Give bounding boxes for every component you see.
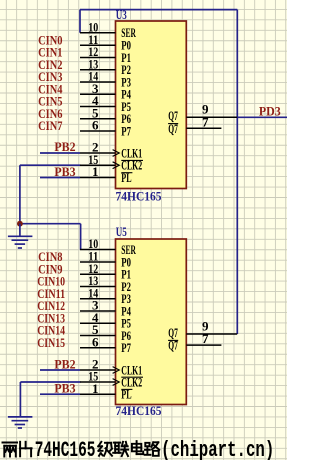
svg-text:P7: P7 [121, 340, 131, 355]
pin 7 (Q7 inverted) of U3 [168, 114, 221, 136]
wire PB2 stub U3 [40, 152, 80, 154]
pin 3 (P4) of U5 [80, 298, 131, 319]
pin 4 (P5) of U5 [80, 310, 131, 331]
caption text block [3, 438, 275, 460]
svg-text:Q7: Q7 [168, 121, 178, 136]
wire PD3 output from U3.Q7 [237, 116, 287, 118]
designator U5 [116, 224, 127, 239]
net label CIN7 [38, 118, 63, 133]
pin 11 (P0) of U5 [80, 249, 131, 270]
net label CIN5 [38, 94, 63, 109]
svg-text:74HC165: 74HC165 [35, 438, 96, 460]
net label PD3 [259, 103, 281, 118]
wire PB3 stub U3 [40, 177, 80, 179]
caption hanzi 片 [20, 442, 32, 457]
pin 9 (Q7) of U3 [168, 102, 237, 124]
pin 2 (CLK1) of U3 [80, 140, 142, 161]
caption hanzi 路 [145, 442, 160, 456]
pin 12 (P1) of U5 [80, 261, 131, 282]
wire U3.CLK2 to ground net [20, 165, 81, 224]
pin 3 (P4) of U3 [80, 81, 131, 102]
net label CIN0 [38, 32, 62, 47]
wire PB2 stub U5 [40, 369, 80, 371]
net label PB2 (U5) [54, 356, 75, 371]
wire U5.CLK2 to ground [20, 382, 80, 417]
svg-text:74HC165: 74HC165 [116, 189, 162, 204]
net label CIN14 [37, 323, 65, 338]
net label CIN11 [37, 286, 65, 301]
net label CIN15 [37, 335, 65, 350]
caption hanzi 联 [113, 442, 128, 456]
caption hanzi 电 [132, 441, 143, 454]
caption hanzi 两 [3, 443, 18, 457]
svg-text:PB2: PB2 [54, 139, 75, 154]
pin 5 (P6) of U3 [80, 105, 131, 126]
svg-text:1: 1 [92, 164, 99, 179]
value label 74HC165 of U3 [116, 189, 162, 204]
pin 10 (SER) of U5 [80, 236, 136, 257]
svg-text:PL: PL [121, 170, 131, 185]
IC U5 74HC165 [116, 239, 187, 405]
pin 15 (CLK2) of U5 [80, 369, 143, 390]
wire drop to U3 SER pin [79, 10, 81, 33]
net label CIN9 [38, 261, 63, 276]
ground symbol upper [8, 224, 33, 248]
pin 7 (Q7 inverted) of U5 [168, 331, 221, 353]
wire vertical cascade right side [236, 10, 238, 334]
pin 5 (P6) of U5 [80, 322, 131, 343]
svg-text:U5: U5 [116, 224, 127, 239]
svg-text:PB2: PB2 [54, 356, 75, 371]
net label CIN12 [37, 298, 65, 313]
net label PB3 (U3) [54, 164, 76, 179]
designator U3 [116, 7, 127, 22]
net label CIN6 [38, 106, 63, 121]
svg-text:(chipart.cn): (chipart.cn) [161, 438, 274, 460]
pin 2 (CLK1) of U5 [80, 357, 142, 378]
net label PB3 (U5) [54, 381, 76, 396]
net label CIN10 [37, 274, 65, 289]
svg-text:PB3: PB3 [54, 164, 76, 179]
net label PB2 (U3) [54, 139, 75, 154]
svg-text:1: 1 [92, 381, 99, 396]
net label CIN2 [38, 57, 62, 72]
pin 13 (P2) of U5 [80, 273, 131, 294]
svg-text:CIN7: CIN7 [38, 118, 63, 133]
IC U3 74HC165 [116, 21, 187, 189]
net label CIN4 [38, 81, 63, 96]
svg-text:P7: P7 [121, 123, 131, 138]
svg-text:Q7: Q7 [168, 338, 178, 353]
pin 12 (P1) of U3 [80, 44, 131, 65]
pin 4 (P5) of U3 [80, 93, 131, 114]
wire ground net horizontal to U5.SER [20, 224, 81, 250]
svg-text:CIN15: CIN15 [37, 335, 65, 350]
pin 15 (CLK2) of U3 [80, 152, 143, 173]
svg-text:6: 6 [92, 334, 99, 349]
pin 14 (P3) of U3 [80, 69, 131, 90]
wire cascade U5.Q7 to U3.SER (top run) [80, 9, 237, 11]
svg-text:6: 6 [92, 118, 99, 133]
svg-text:PD3: PD3 [259, 103, 281, 118]
pin 6 (P7) of U3 [80, 118, 131, 139]
svg-text:7: 7 [202, 114, 209, 129]
net label CIN8 [38, 249, 63, 264]
net label CIN13 [37, 310, 65, 325]
svg-text:7: 7 [202, 331, 209, 346]
svg-text:PL: PL [121, 387, 131, 402]
pin 14 (P3) of U5 [80, 285, 131, 306]
svg-text:U3: U3 [116, 7, 127, 22]
pin 1 (PL) of U3 [80, 164, 132, 185]
ground symbol lower [8, 417, 33, 428]
pin 11 (P0) of U3 [80, 32, 131, 53]
pin 13 (P2) of U3 [80, 56, 131, 77]
junction dot [17, 221, 23, 227]
net label CIN3 [38, 69, 63, 84]
svg-text:PB3: PB3 [54, 381, 76, 396]
caption hanzi 级 [98, 442, 112, 456]
pin 10 (SER) of U3 [80, 19, 136, 40]
pin 6 (P7) of U5 [80, 334, 131, 355]
pin 1 (PL) of U5 [80, 381, 132, 402]
pin 9 (Q7) of U5 [168, 318, 237, 340]
wire PB3 stub U5 [40, 393, 80, 395]
value label 74HC165 of U5 [116, 403, 162, 418]
net label CIN1 [38, 45, 62, 60]
svg-text:74HC165: 74HC165 [116, 403, 162, 418]
